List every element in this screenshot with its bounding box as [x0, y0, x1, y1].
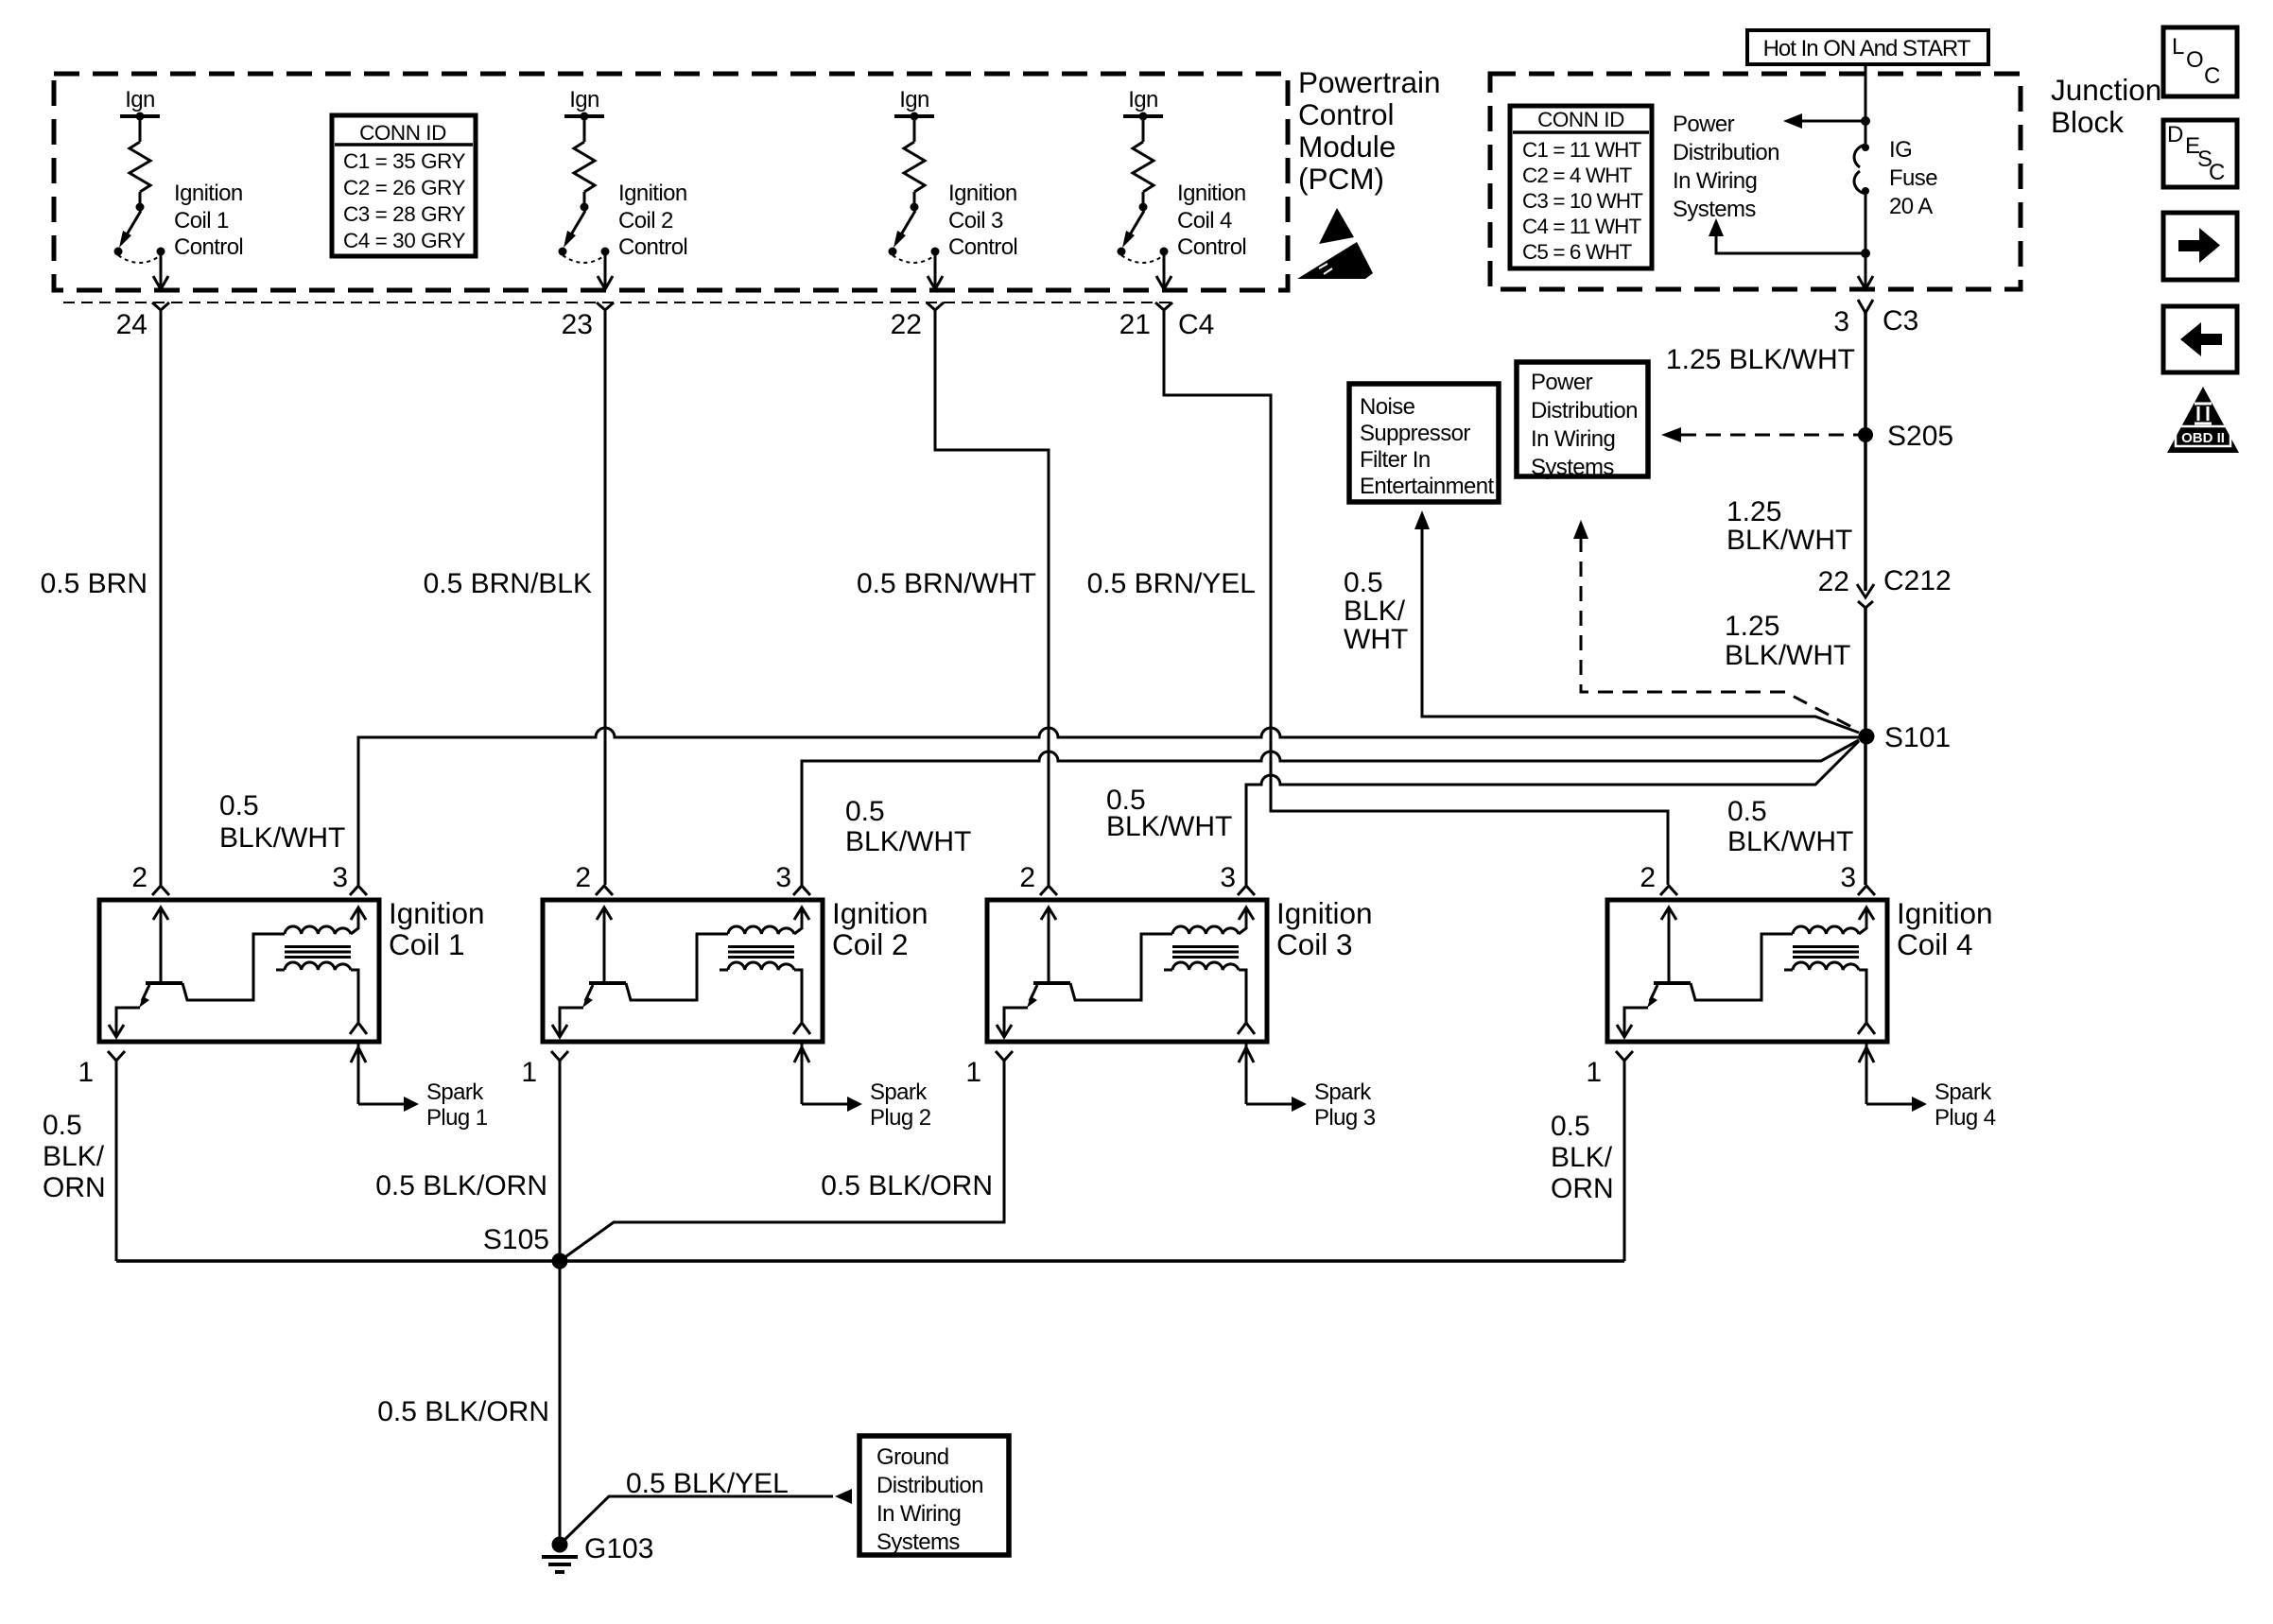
svg-text:1: 1: [78, 1057, 94, 1088]
ground G103 symbol: [552, 1537, 568, 1553]
junction block exit arrow: [1858, 276, 1873, 289]
svg-text:0.5 BRN/BLK: 0.5 BRN/BLK: [424, 568, 592, 599]
Power Distribution reference box: [1517, 362, 1648, 480]
svg-text:2: 2: [131, 862, 147, 893]
svg-text:Spark: Spark: [426, 1080, 484, 1105]
svg-text:Power: Power: [1673, 112, 1735, 137]
svg-text:3: 3: [1220, 862, 1236, 893]
svg-text:Ignition: Ignition: [832, 896, 928, 930]
svg-text:BLK/: BLK/: [43, 1141, 105, 1172]
svg-text:0.5: 0.5: [1727, 796, 1767, 827]
svg-text:Ignition: Ignition: [174, 181, 243, 206]
wire 0.5 BLK/ORN coil 4 pin 1 to S105: [1623, 1068, 1626, 1261]
svg-text:0.5 BRN: 0.5 BRN: [41, 568, 147, 599]
svg-text:0.5 BLK/YEL: 0.5 BLK/YEL: [626, 1468, 789, 1499]
svg-text:Plug 3: Plug 3: [1314, 1105, 1376, 1131]
svg-text:Power: Power: [1531, 370, 1593, 395]
svg-text:C5 = 6 WHT: C5 = 6 WHT: [1522, 240, 1633, 264]
junction node to Power Distribution arrow: [1861, 116, 1870, 126]
svg-text:S205: S205: [1887, 421, 1953, 452]
svg-text:2: 2: [1019, 862, 1035, 893]
transistor driver Ignition Coil 2 Control: [559, 112, 615, 320]
svg-text:3: 3: [775, 862, 791, 893]
wire 1.25 BLK/WHT junction block C3 to S205: [1864, 313, 1867, 591]
svg-text:Ignition: Ignition: [948, 181, 1017, 206]
svg-text:Control: Control: [1298, 97, 1395, 131]
svg-text:0.5 BLK/ORN: 0.5 BLK/ORN: [375, 1170, 547, 1201]
wire 0.5 BRN/BLK pin 23 to coil 2 pin 2: [604, 310, 607, 885]
svg-text:0.5: 0.5: [1344, 567, 1383, 598]
svg-text:Coil 4: Coil 4: [1177, 208, 1232, 233]
svg-text:IG: IG: [1889, 137, 1912, 163]
PCM CONN ID table: [332, 115, 476, 256]
svg-text:Coil 2: Coil 2: [832, 927, 909, 961]
svg-text:Module: Module: [1298, 130, 1396, 164]
svg-text:Control: Control: [618, 234, 687, 260]
dashed wire S101 to power distribution: [1581, 537, 1857, 730]
svg-text:Ignition: Ignition: [1897, 896, 1993, 930]
svg-text:2: 2: [575, 862, 591, 893]
svg-text:0.5 BRN/WHT: 0.5 BRN/WHT: [857, 568, 1036, 599]
svg-text:23: 23: [562, 309, 593, 340]
LOC icon: [2163, 27, 2237, 96]
svg-text:Control: Control: [1177, 234, 1246, 260]
svg-text:BLK/WHT: BLK/WHT: [845, 826, 971, 857]
svg-text:In Wiring: In Wiring: [1673, 168, 1757, 194]
svg-text:Systems: Systems: [1673, 197, 1756, 222]
svg-text:ORN: ORN: [1551, 1173, 1614, 1204]
svg-text:BLK/WHT: BLK/WHT: [1726, 525, 1852, 556]
svg-text:0.5: 0.5: [1551, 1111, 1590, 1142]
wire 1.25 BLK/WHT C212 to S101 and coil 4 pin 3: [1864, 608, 1867, 885]
svg-text:C3: C3: [1883, 305, 1918, 337]
svg-text:Ignition: Ignition: [389, 896, 485, 930]
svg-text:(PCM): (PCM): [1298, 162, 1384, 196]
svg-text:Noise: Noise: [1360, 394, 1415, 420]
svg-text:Block: Block: [2051, 105, 2124, 139]
PCM dashed enclosure box: [54, 74, 1288, 290]
connector 3 C3: [1858, 300, 1873, 313]
svg-text:O: O: [2186, 47, 2203, 73]
svg-text:0.5: 0.5: [845, 796, 885, 827]
svg-text:Ground: Ground: [876, 1444, 948, 1470]
Hot In ON And START power box: [1747, 30, 1988, 64]
svg-text:C2 = 4 WHT: C2 = 4 WHT: [1522, 164, 1633, 187]
svg-text:1: 1: [965, 1057, 981, 1088]
svg-text:24: 24: [116, 309, 147, 340]
svg-text:Coil 2: Coil 2: [618, 208, 673, 233]
ignition coil 1: [99, 886, 419, 1112]
svg-text:C4 = 11 WHT: C4 = 11 WHT: [1522, 215, 1641, 238]
wire 0.5 BLK/WHT coil 2 pin 3 to S101 (with hops): [802, 740, 1859, 885]
svg-text:Powertrain: Powertrain: [1298, 65, 1441, 99]
PCM name label: [1298, 65, 1441, 196]
svg-text:3: 3: [332, 862, 348, 893]
wire 0.5 BLK/WHT coil 1 pin 3 to S101 (with hops): [358, 728, 1859, 885]
in-line connector C212: [1857, 584, 1874, 597]
wire 0.5 BLK/WHT S101 to noise suppressor filter: [1422, 528, 1859, 733]
wire 0.5 BLK/ORN coil 2 pin 1 to S105: [559, 1068, 562, 1261]
svg-text:BLK/WHT: BLK/WHT: [219, 822, 345, 854]
svg-text:Ign: Ign: [125, 87, 155, 112]
svg-text:BLK/: BLK/: [1344, 596, 1406, 627]
svg-text:Ign: Ign: [899, 87, 929, 112]
ignition coil 3: [987, 886, 1307, 1112]
wire 0.5 BLK/ORN coil 1 pin 1 to S105: [115, 1068, 118, 1261]
svg-text:C1 = 35 GRY: C1 = 35 GRY: [343, 149, 466, 173]
svg-text:1: 1: [1586, 1057, 1602, 1088]
transistor driver Ignition Coil 3 Control: [889, 112, 945, 320]
svg-text:0.5 BRN/YEL: 0.5 BRN/YEL: [1087, 568, 1256, 599]
svg-text:Distribution: Distribution: [1673, 140, 1779, 165]
svg-text:C: C: [2204, 63, 2220, 89]
svg-text:C3 = 28 GRY: C3 = 28 GRY: [343, 202, 466, 226]
svg-text:Ignition: Ignition: [1276, 896, 1373, 930]
svg-text:Control: Control: [174, 234, 243, 260]
svg-text:CONN ID: CONN ID: [1537, 108, 1624, 131]
svg-text:Spark: Spark: [870, 1080, 928, 1105]
svg-text:S101: S101: [1884, 722, 1951, 753]
splice S101: [1859, 729, 1875, 745]
svg-text:22: 22: [1818, 566, 1849, 597]
svg-text:BLK/WHT: BLK/WHT: [1725, 640, 1850, 671]
svg-text:C1 = 11 WHT: C1 = 11 WHT: [1522, 138, 1641, 162]
svg-text:In Wiring: In Wiring: [876, 1501, 961, 1527]
DESC icon: [2163, 120, 2237, 187]
svg-text:C4 = 30 GRY: C4 = 30 GRY: [343, 229, 466, 252]
svg-text:1: 1: [521, 1057, 537, 1088]
dashed branch wire S205 to Power Distribution: [1681, 434, 1858, 437]
ESD sensitivity symbol: [1297, 208, 1373, 279]
svg-text:WHT: WHT: [1344, 624, 1408, 655]
svg-text:0.5 BLK/ORN: 0.5 BLK/ORN: [821, 1170, 993, 1201]
svg-text:BLK/WHT: BLK/WHT: [1106, 811, 1232, 842]
svg-text:22: 22: [891, 309, 922, 340]
svg-text:Ign: Ign: [569, 87, 599, 112]
svg-text:Coil 1: Coil 1: [174, 208, 229, 233]
forward arrow icon: [2163, 213, 2237, 280]
wire 0.5 BLK/YEL G103 to ground distribution: [564, 1496, 833, 1540]
fuse IG 20 A symbol: [1854, 144, 1869, 195]
svg-text:Plug 2: Plug 2: [870, 1105, 931, 1131]
ignition coil 2: [543, 886, 862, 1112]
svg-text:3: 3: [1833, 306, 1849, 337]
Junction Block CONN ID table: [1510, 106, 1652, 268]
svg-text:Coil 4: Coil 4: [1897, 927, 1973, 961]
svg-text:C3 = 10 WHT: C3 = 10 WHT: [1522, 189, 1643, 213]
svg-text:1.25 BLK/WHT: 1.25 BLK/WHT: [1666, 344, 1855, 375]
svg-text:Plug 1: Plug 1: [426, 1105, 488, 1131]
Ground Distribution reference box: [859, 1436, 1009, 1555]
svg-text:C2 = 26 GRY: C2 = 26 GRY: [343, 176, 466, 199]
svg-text:C212: C212: [1883, 565, 1952, 596]
svg-text:Spark: Spark: [1935, 1080, 1992, 1105]
Noise Suppressor reference box: [1349, 384, 1499, 502]
wire from fuse down to junction block exit: [1865, 191, 1867, 288]
wire 0.5 BLK/ORN S105 to G103: [559, 1261, 562, 1541]
svg-text:21: 21: [1119, 309, 1151, 340]
wire 0.5 BRN/YEL pin 21 to coil 4 pin 2 (with hops over S101 branches): [1164, 310, 1668, 885]
wire 0.5 BRN pin 24 to coil 1 pin 2: [160, 310, 163, 885]
svg-text:S105: S105: [483, 1224, 549, 1255]
svg-text:Systems: Systems: [876, 1529, 960, 1555]
transistor driver Ignition Coil 1 Control: [114, 112, 170, 320]
svg-text:Coil 3: Coil 3: [1276, 927, 1353, 961]
svg-text:Filter In: Filter In: [1360, 447, 1431, 473]
svg-text:Entertainment: Entertainment: [1360, 474, 1495, 499]
ignition coil 4: [1607, 886, 1927, 1112]
svg-text:C: C: [2209, 160, 2225, 185]
svg-text:BLK/: BLK/: [1551, 1142, 1613, 1173]
wire 0.5 BLK/ORN coil 3 pin 1 to S105: [560, 1068, 1004, 1261]
PCM C4 connector thin dashed line: [63, 302, 1172, 303]
svg-text:D: D: [2167, 122, 2183, 147]
svg-text:1.25: 1.25: [1726, 496, 1781, 527]
svg-text:Coil 3: Coil 3: [948, 208, 1003, 233]
svg-text:Distribution: Distribution: [1531, 398, 1638, 423]
svg-text:BLK/WHT: BLK/WHT: [1727, 826, 1853, 857]
svg-text:Systems: Systems: [1531, 455, 1614, 480]
transistor driver Ignition Coil 4 Control: [1118, 112, 1173, 320]
svg-text:Ign: Ign: [1128, 87, 1158, 112]
S105 bus wire: [116, 1259, 1624, 1263]
svg-text:ORN: ORN: [43, 1172, 106, 1203]
svg-text:G103: G103: [584, 1533, 653, 1564]
back arrow icon: [2163, 306, 2237, 372]
Junction Block dashed enclosure: [1490, 74, 2021, 289]
svg-text:OBD II: OBD II: [2181, 430, 2225, 446]
OBD II symbol: [2167, 387, 2239, 453]
svg-text:1.25: 1.25: [1725, 611, 1779, 642]
svg-text:Plug 4: Plug 4: [1935, 1105, 1996, 1131]
svg-text:Ignition: Ignition: [1177, 181, 1246, 206]
svg-text:3: 3: [1840, 862, 1856, 893]
svg-text:0.5: 0.5: [219, 790, 259, 821]
svg-text:0.5: 0.5: [43, 1110, 82, 1141]
splice S205: [1858, 427, 1873, 442]
svg-text:20 A: 20 A: [1889, 194, 1933, 219]
wire 0.5 BRN/WHT pin 22 to coil 3 pin 2: [935, 310, 1049, 885]
svg-text:Ignition: Ignition: [618, 181, 687, 206]
svg-text:Coil 1: Coil 1: [389, 927, 465, 961]
wire from Hot feed into junction block: [1865, 64, 1867, 144]
svg-text:CONN ID: CONN ID: [359, 121, 446, 145]
svg-text:Spark: Spark: [1314, 1080, 1372, 1105]
svg-text:Junction: Junction: [2051, 73, 2161, 107]
splice S105: [552, 1253, 568, 1270]
svg-text:In Wiring: In Wiring: [1531, 426, 1615, 452]
svg-text:Control: Control: [948, 234, 1017, 260]
wire 0.5 BLK/WHT coil 3 pin 3 to S101 (with hop): [1246, 741, 1859, 885]
svg-text:Suppressor: Suppressor: [1360, 421, 1470, 446]
svg-text:C4: C4: [1178, 309, 1214, 340]
svg-text:Distribution: Distribution: [876, 1473, 983, 1498]
svg-text:0.5 BLK/ORN: 0.5 BLK/ORN: [377, 1396, 549, 1427]
svg-text:Fuse: Fuse: [1889, 165, 1937, 191]
svg-text:L: L: [2172, 34, 2184, 60]
svg-text:2: 2: [1640, 862, 1656, 893]
svg-text:Hot In ON And START: Hot In ON And START: [1763, 36, 1971, 61]
junction node to lower power distribution arrow: [1861, 249, 1870, 258]
